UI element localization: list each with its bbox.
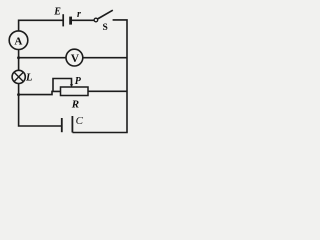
battery E long plate [62, 14, 64, 26]
rheostat R box [61, 87, 89, 96]
wire: voltmeter branch left segment [19, 57, 66, 59]
wire: rheostat right to right edge [88, 90, 127, 92]
wire: slider bracket up and over to P [53, 79, 72, 92]
svg-text:V: V [71, 53, 80, 65]
voltmeter U-V circle [66, 49, 83, 66]
svg-text:C: C [76, 115, 84, 127]
lamp L cross diagonal 1 [14, 72, 23, 81]
capacitor C left plate [61, 118, 63, 132]
wire: ammeter bottom to lamp top [18, 50, 20, 71]
svg-text:r: r [77, 9, 81, 20]
svg-text:E: E [53, 7, 61, 18]
svg-text:R: R [71, 99, 79, 111]
wire: voltmeter branch right segment [83, 57, 127, 59]
junction dot at ammeter/voltmeter T [17, 56, 20, 59]
junction dot at lamp/rheostat T [17, 93, 20, 96]
lamp L circle [12, 70, 25, 83]
lamp L cross diagonal 2 [14, 72, 23, 81]
svg-text:A: A [14, 35, 22, 47]
background [0, 0, 138, 139]
svg-text:P: P [75, 76, 82, 87]
capacitor C right plate [71, 116, 73, 133]
ammeter circle [9, 31, 28, 50]
svg-text:L: L [25, 72, 32, 83]
wire: battery to switch pivot [72, 19, 94, 21]
switch S blade [98, 10, 113, 19]
slider P arrowhead [70, 84, 73, 87]
wire: lamp bottom down to bottom-left corner and right to capacitor [19, 84, 61, 127]
wire: switch to top-right corner, right edge down, bottom-right to capacitor [73, 20, 128, 133]
wire: top-left riser from ammeter up and right to battery [19, 20, 63, 31]
wire: rheostat feed from left column with jog [19, 91, 61, 94]
switch S pivot circle [94, 18, 98, 22]
svg-text:S: S [103, 23, 108, 33]
battery E short plate [69, 17, 72, 25]
